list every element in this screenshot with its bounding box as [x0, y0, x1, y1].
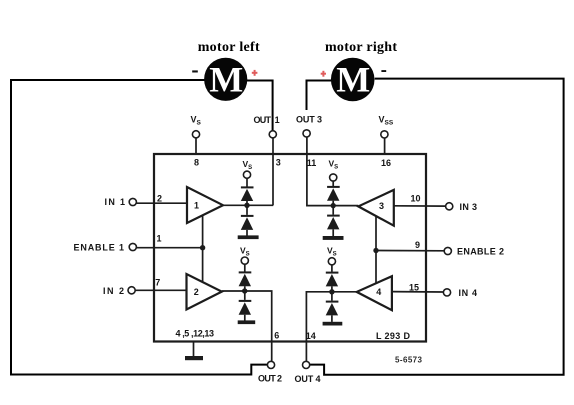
wire: D2 anode to ground bar	[246, 230, 248, 236]
diode D2 (up, from ground)	[241, 215, 254, 230]
buffer amplifier 3	[358, 190, 394, 226]
terminal VS group A	[243, 171, 250, 178]
ground bar (group D)	[323, 322, 343, 326]
wire: motor right positive down to OUT 3	[307, 81, 332, 111]
terminal IN 2	[128, 287, 135, 294]
label: motor right minus terminal	[381, 70, 386, 72]
svg-text:motor right: motor right	[325, 40, 397, 55]
svg-text:VS: VS	[243, 159, 253, 171]
terminal ENABLE 1	[129, 243, 136, 250]
svg-text:7: 7	[155, 278, 160, 288]
terminal VSS	[381, 131, 388, 138]
svg-text:15: 15	[409, 282, 419, 292]
wire: D3 to node B to D4	[244, 286, 246, 300]
wire: IN 1 to buffer 1 input	[137, 202, 188, 204]
svg-text:VS: VS	[327, 246, 337, 258]
terminal OUT 3	[303, 130, 310, 137]
svg-text:M: M	[336, 60, 370, 100]
diode D3 (up, to VS)	[239, 271, 252, 286]
buffer amplifier 2	[187, 274, 222, 310]
terminal ENABLE 2	[444, 247, 451, 254]
svg-text:2: 2	[194, 287, 199, 297]
svg-text:OUT 3: OUT 3	[296, 115, 322, 125]
terminal VS group B	[241, 257, 248, 264]
svg-text:motor left: motor left	[198, 40, 260, 55]
label: motor left minus terminal	[192, 70, 198, 72]
wire: VS to diode D7	[331, 265, 333, 272]
wire: ENABLE 2 to enable junction	[376, 250, 444, 252]
ground bar (group B)	[238, 320, 256, 324]
diode D5 (up, to VS)	[327, 186, 340, 201]
wire: D1 to node A to D2	[246, 201, 248, 215]
ground bar (group A)	[238, 235, 259, 239]
diode D1 (up, to VS)	[241, 186, 254, 201]
svg-text:1: 1	[275, 115, 280, 125]
junction: node B (out2 flyback)	[242, 288, 247, 293]
svg-text:ENABLE 1: ENABLE 1	[74, 242, 125, 252]
svg-text:VS: VS	[240, 246, 250, 258]
svg-text:8: 8	[194, 158, 199, 168]
wire: VS terminal to pin 8	[195, 138, 197, 155]
wire: IN 4 to buffer 4 input	[392, 291, 443, 293]
label: motor right plus terminal (red)	[321, 71, 326, 77]
IC body U1 L293D	[154, 154, 426, 342]
wire: buffer 2 output to node B and pin 6	[222, 291, 272, 361]
svg-text:4 ,5 ,12,13: 4 ,5 ,12,13	[176, 329, 215, 339]
junction: enable 1 node	[200, 245, 205, 250]
svg-text:3: 3	[276, 158, 281, 168]
svg-text:IN 2: IN 2	[103, 286, 124, 296]
diode D6 (up, from ground)	[327, 215, 340, 230]
junction: node D (out4 flyback)	[329, 289, 334, 294]
svg-text:ENABLE 2: ENABLE 2	[457, 246, 504, 256]
terminal VS	[192, 131, 199, 138]
svg-text:16: 16	[381, 158, 391, 168]
svg-text:5-6573: 5-6573	[395, 356, 423, 365]
terminal IN 1	[129, 198, 136, 205]
wire: motor left positive down to OUT 1	[247, 81, 273, 131]
terminal VS group D	[328, 258, 335, 265]
svg-text:1: 1	[156, 233, 161, 243]
wire: D8 anode to ground bar	[331, 315, 333, 322]
svg-text:4: 4	[376, 287, 381, 297]
diode D8 (up, from ground)	[326, 301, 339, 316]
wire: IN 2 to buffer 2 input	[135, 289, 186, 291]
diode D7 (up, to VS)	[326, 272, 339, 287]
svg-text:VS: VS	[329, 159, 339, 171]
motor M2 (motor right)	[331, 58, 375, 102]
label: motor left plus terminal (red)	[252, 70, 258, 76]
terminal IN 4	[443, 289, 450, 296]
wire: enable 1 vertical between buffer 1 and buffer 2	[202, 215, 204, 282]
terminal VS group C	[330, 174, 337, 181]
svg-text:IN 1: IN 1	[105, 197, 126, 207]
wire: D6 anode to ground bar	[332, 229, 334, 236]
wire: ENABLE 1 to enable junction	[137, 247, 203, 249]
svg-text:OUT 2: OUT 2	[258, 374, 282, 384]
wire: pin 14 up to node D and buffer 4 tip	[306, 292, 356, 362]
junction: node A (out1 flyback)	[244, 203, 249, 208]
svg-text:10: 10	[410, 194, 420, 204]
svg-text:11: 11	[307, 158, 317, 168]
buffer amplifier 1	[187, 187, 223, 223]
terminal OUT 2	[267, 361, 274, 368]
svg-text:L 293 D: L 293 D	[376, 331, 411, 341]
wire: buffer 1 output to node A and pin 3	[223, 204, 273, 206]
svg-text:OUT: OUT	[254, 115, 272, 125]
wire: VS to diode D5	[332, 181, 334, 186]
wire: OUT 1 terminal through pin 3 to flyback node A	[272, 138, 274, 205]
junction: node C (out3 flyback)	[331, 203, 336, 208]
svg-text:1: 1	[194, 200, 199, 210]
svg-text:2: 2	[157, 194, 162, 204]
svg-text:OUT 4: OUT 4	[295, 374, 321, 384]
wire: VS to diode D3	[244, 264, 246, 271]
svg-text:IN 4: IN 4	[459, 288, 478, 298]
svg-text:6: 6	[274, 331, 279, 341]
diode D4 (up, from ground)	[239, 300, 252, 315]
ground bar (group C)	[323, 236, 344, 240]
buffer amplifier 4	[357, 276, 392, 310]
svg-text:IN 3: IN 3	[460, 202, 478, 212]
junction: enable 2 node	[373, 248, 378, 253]
svg-text:9: 9	[415, 240, 420, 250]
svg-text:VS: VS	[191, 115, 202, 127]
terminal IN 3	[446, 203, 453, 210]
wire: D7 to node D to D8	[331, 286, 333, 300]
wire: OUT 3 terminal through pin 11 to flyback node C and buffer 3 tip	[307, 137, 358, 206]
svg-text:14: 14	[306, 331, 316, 341]
wire: IN 3 to buffer 3 input	[394, 205, 446, 207]
wire: D4 anode to ground bar	[244, 315, 246, 321]
svg-text:M: M	[209, 59, 243, 99]
wire: D5 to node C to D6	[332, 201, 334, 215]
wire: motor right negative to right edge, down and along bottom to OUT 4	[310, 79, 564, 375]
wire: enable 2 vertical between buffer 3 and buffer 4	[375, 216, 377, 283]
ground (pins 4,5,12,13)	[185, 343, 203, 361]
svg-text:VSS: VSS	[379, 115, 394, 127]
svg-text:3: 3	[379, 201, 384, 211]
terminal OUT 1	[269, 131, 276, 138]
wire: VSS terminal to pin 16	[384, 138, 386, 154]
wire: VS to diode D1	[246, 178, 248, 186]
motor M1 (motor left)	[204, 58, 247, 101]
terminal OUT 4	[303, 361, 310, 368]
wire: motor left negative to left edge, down and along bottom to OUT 2	[11, 80, 268, 375]
